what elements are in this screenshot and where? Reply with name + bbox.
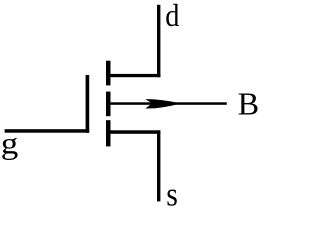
svg-text:B: B: [238, 86, 259, 122]
svg-text:g: g: [1, 127, 19, 160]
svg-text:s: s: [166, 175, 178, 208]
svg-text:d: d: [165, 0, 179, 33]
